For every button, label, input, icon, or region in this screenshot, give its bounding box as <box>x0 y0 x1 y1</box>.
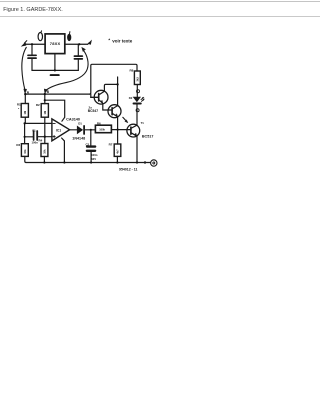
svg-text:T1: T1 <box>141 121 145 125</box>
svg-text:C2: C2 <box>86 143 90 147</box>
svg-text:3k3: 3k3 <box>135 77 139 82</box>
svg-text:voir texte: voir texte <box>112 38 133 43</box>
svg-text:R3: R3 <box>16 143 20 147</box>
svg-text:954012 - 11: 954012 - 11 <box>119 167 138 171</box>
svg-text:78XX: 78XX <box>50 41 61 46</box>
svg-text:R6: R6 <box>97 122 101 126</box>
svg-text:*: * <box>18 107 20 111</box>
svg-text:1M: 1M <box>43 111 47 115</box>
svg-text:10k: 10k <box>23 149 27 154</box>
svg-text:R4: R4 <box>39 139 43 143</box>
svg-text:1M: 1M <box>23 111 27 115</box>
svg-text:R2: R2 <box>36 103 40 107</box>
svg-text:D1: D1 <box>78 122 82 126</box>
svg-text:4k7: 4k7 <box>115 149 119 154</box>
svg-text:R7: R7 <box>109 143 113 147</box>
svg-text:1N4148: 1N4148 <box>72 136 85 140</box>
svg-text:63V: 63V <box>91 157 96 161</box>
svg-text:R8: R8 <box>130 68 134 72</box>
svg-text:D2: D2 <box>129 96 133 100</box>
svg-text:BC547: BC547 <box>88 109 98 113</box>
svg-text:100n: 100n <box>32 140 39 144</box>
svg-text:C1: C1 <box>32 129 36 133</box>
svg-text:10k: 10k <box>42 149 46 154</box>
svg-text:IC1: IC1 <box>56 129 61 133</box>
svg-text:*: * <box>108 38 110 43</box>
svg-text:BC517: BC517 <box>142 134 153 138</box>
svg-text:100k: 100k <box>99 127 105 131</box>
svg-text:Figure 1. GARDE-78XX.: Figure 1. GARDE-78XX. <box>3 7 63 13</box>
